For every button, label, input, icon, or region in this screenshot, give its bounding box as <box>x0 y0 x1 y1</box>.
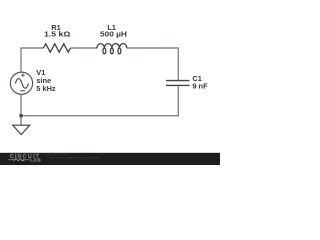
capacitor C1 top plate <box>166 80 190 82</box>
capacitor C1 bottom plate <box>166 84 190 86</box>
V1 sine wave <box>15 79 28 89</box>
wire: C1 bottom plate down, bottom wire across to V1 bottom <box>21 85 178 115</box>
V1 plus sign <box>21 74 24 77</box>
svg-text:LAB: LAB <box>30 157 41 162</box>
wire: L1 right to top-right corner down to C1 top plate <box>127 48 178 81</box>
svg-text:9 nF: 9 nF <box>192 82 208 91</box>
wire: V1 bottom to junction <box>20 94 22 115</box>
V1 minus sign <box>20 90 25 92</box>
svg-text:5 kHz: 5 kHz <box>36 84 56 93</box>
resistor R1 <box>44 44 71 52</box>
voltage source V1 circle <box>10 72 32 94</box>
inductor L1 <box>97 44 127 54</box>
svg-text:500 µH: 500 µH <box>100 29 127 38</box>
ground <box>13 125 30 134</box>
wire: top-left corner from V1 top to R1 left lead <box>21 48 44 72</box>
wire: junction to ground <box>20 116 22 126</box>
junction dot <box>19 114 22 117</box>
wire: R1 right lead to L1 left <box>71 47 98 49</box>
svg-text:http://circuitlab.com/c/68wr5x: http://circuitlab.com/c/68wr5x <box>48 156 101 160</box>
watermark bar <box>0 153 220 165</box>
svg-text:1.5 kΩ: 1.5 kΩ <box>44 30 70 39</box>
watermark logo symbol <box>8 159 29 161</box>
